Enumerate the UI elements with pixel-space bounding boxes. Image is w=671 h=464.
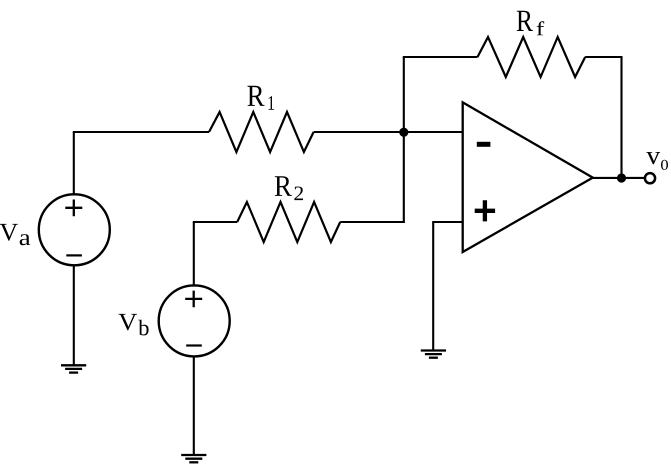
- label vo 'v': [646, 152, 660, 164]
- wire R2 left horizontal: [193, 221, 237, 223]
- wire R1 to node: [314, 131, 404, 133]
- ground under Vb: [181, 455, 206, 462]
- wire op-amp plus input horizontal: [432, 221, 463, 223]
- label R2 'R': [275, 176, 292, 196]
- op-amp plus symbol: [475, 200, 495, 221]
- label R1 subscript '1': [268, 96, 274, 110]
- ground under op-amp plus input: [421, 351, 446, 358]
- label Rf subscript 'f': [537, 21, 545, 35]
- wire right vertical down to output: [620, 57, 622, 178]
- wire plus input vertical down: [432, 222, 434, 351]
- label Rf 'R': [517, 11, 533, 31]
- source Va circle: [39, 194, 110, 265]
- wire Vb top vertical: [193, 222, 195, 286]
- Va plus sign: [65, 200, 82, 217]
- terminal vo open circle: [645, 173, 655, 183]
- label vo subscript 'o': [661, 160, 668, 170]
- op-amp U1 triangle: [463, 102, 593, 252]
- wire Vb bottom vertical: [193, 356, 195, 455]
- resistor R1: [209, 112, 314, 152]
- wire output horizontal: [592, 177, 644, 179]
- wire feedback top horizontal to Rf: [403, 56, 478, 58]
- resistor R2: [237, 202, 340, 242]
- wire R2 right horizontal: [340, 221, 405, 223]
- wire top-left horizontal to R1: [73, 131, 209, 133]
- wire feedback vertical up: [403, 57, 405, 132]
- op-amp minus symbol: [477, 142, 491, 147]
- label Va subscript 'a': [20, 234, 31, 245]
- label Vb 'V': [118, 314, 137, 331]
- label R1 'R': [247, 86, 264, 106]
- label R2 subscript '2': [294, 186, 303, 200]
- Vb minus sign: [186, 344, 202, 346]
- wire node to op-amp minus input: [404, 131, 463, 133]
- wire Rf to right corner: [585, 56, 622, 58]
- wire Va top vertical: [73, 132, 75, 195]
- node output dot: [617, 173, 626, 182]
- node junction dot: [399, 128, 408, 137]
- wire Va bottom vertical: [73, 265, 75, 366]
- ground under Va: [61, 365, 86, 372]
- Vb plus sign: [185, 291, 202, 308]
- label Vb subscript 'b': [138, 320, 148, 336]
- source Vb circle: [159, 285, 230, 356]
- label Va 'V': [0, 224, 18, 241]
- Va minus sign: [66, 254, 82, 256]
- wire node down vertical to R2 level: [403, 132, 405, 223]
- resistor Rf: [478, 37, 586, 77]
